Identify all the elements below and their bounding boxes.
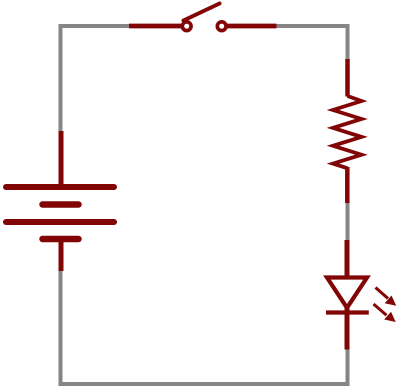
battery plate 3 (long, +) xyxy=(6,219,114,225)
battery BT1 xyxy=(6,131,114,271)
switch left terminal circle xyxy=(182,22,191,31)
switch lever xyxy=(184,4,220,21)
LED cathode bar xyxy=(326,310,369,314)
wire resistor top lead xyxy=(345,59,350,97)
wire top-right (gray: top-right horizontal + right vertical upper) xyxy=(276,26,348,59)
LED light arrow 1 head xyxy=(385,296,397,306)
wire resistor bottom lead xyxy=(345,167,350,203)
switch S1 xyxy=(129,4,277,31)
LED light arrow 2 head xyxy=(384,312,396,322)
wire top-left (gray: left vertical upper + top-left horizontal) xyxy=(61,26,130,131)
LED light arrow 1 shaft xyxy=(376,288,389,299)
LED D1 xyxy=(326,240,396,350)
wire switch left lead xyxy=(129,24,181,29)
battery plate 1 (long, +) xyxy=(6,184,114,190)
switch right terminal circle xyxy=(217,22,226,31)
wire battery top lead xyxy=(59,131,64,187)
resistor R1 xyxy=(333,59,362,203)
resistor zigzag body xyxy=(333,96,362,168)
LED light arrow 2 shaft xyxy=(374,304,387,315)
LED triangle (anode) xyxy=(327,278,367,308)
battery plate 4 (short, -) xyxy=(43,236,79,243)
wire battery bottom lead xyxy=(59,239,64,271)
wire bottom loop (gray: right vertical lower + bottom + left vertical lower) xyxy=(61,271,348,384)
wire right middle (gray between resistor and LED) xyxy=(346,203,350,240)
wire LED bottom lead (cathode) xyxy=(345,306,350,350)
wire LED top lead (anode) xyxy=(345,240,350,278)
battery plate 2 (short, -) xyxy=(43,201,79,208)
wire switch right lead xyxy=(227,24,277,29)
